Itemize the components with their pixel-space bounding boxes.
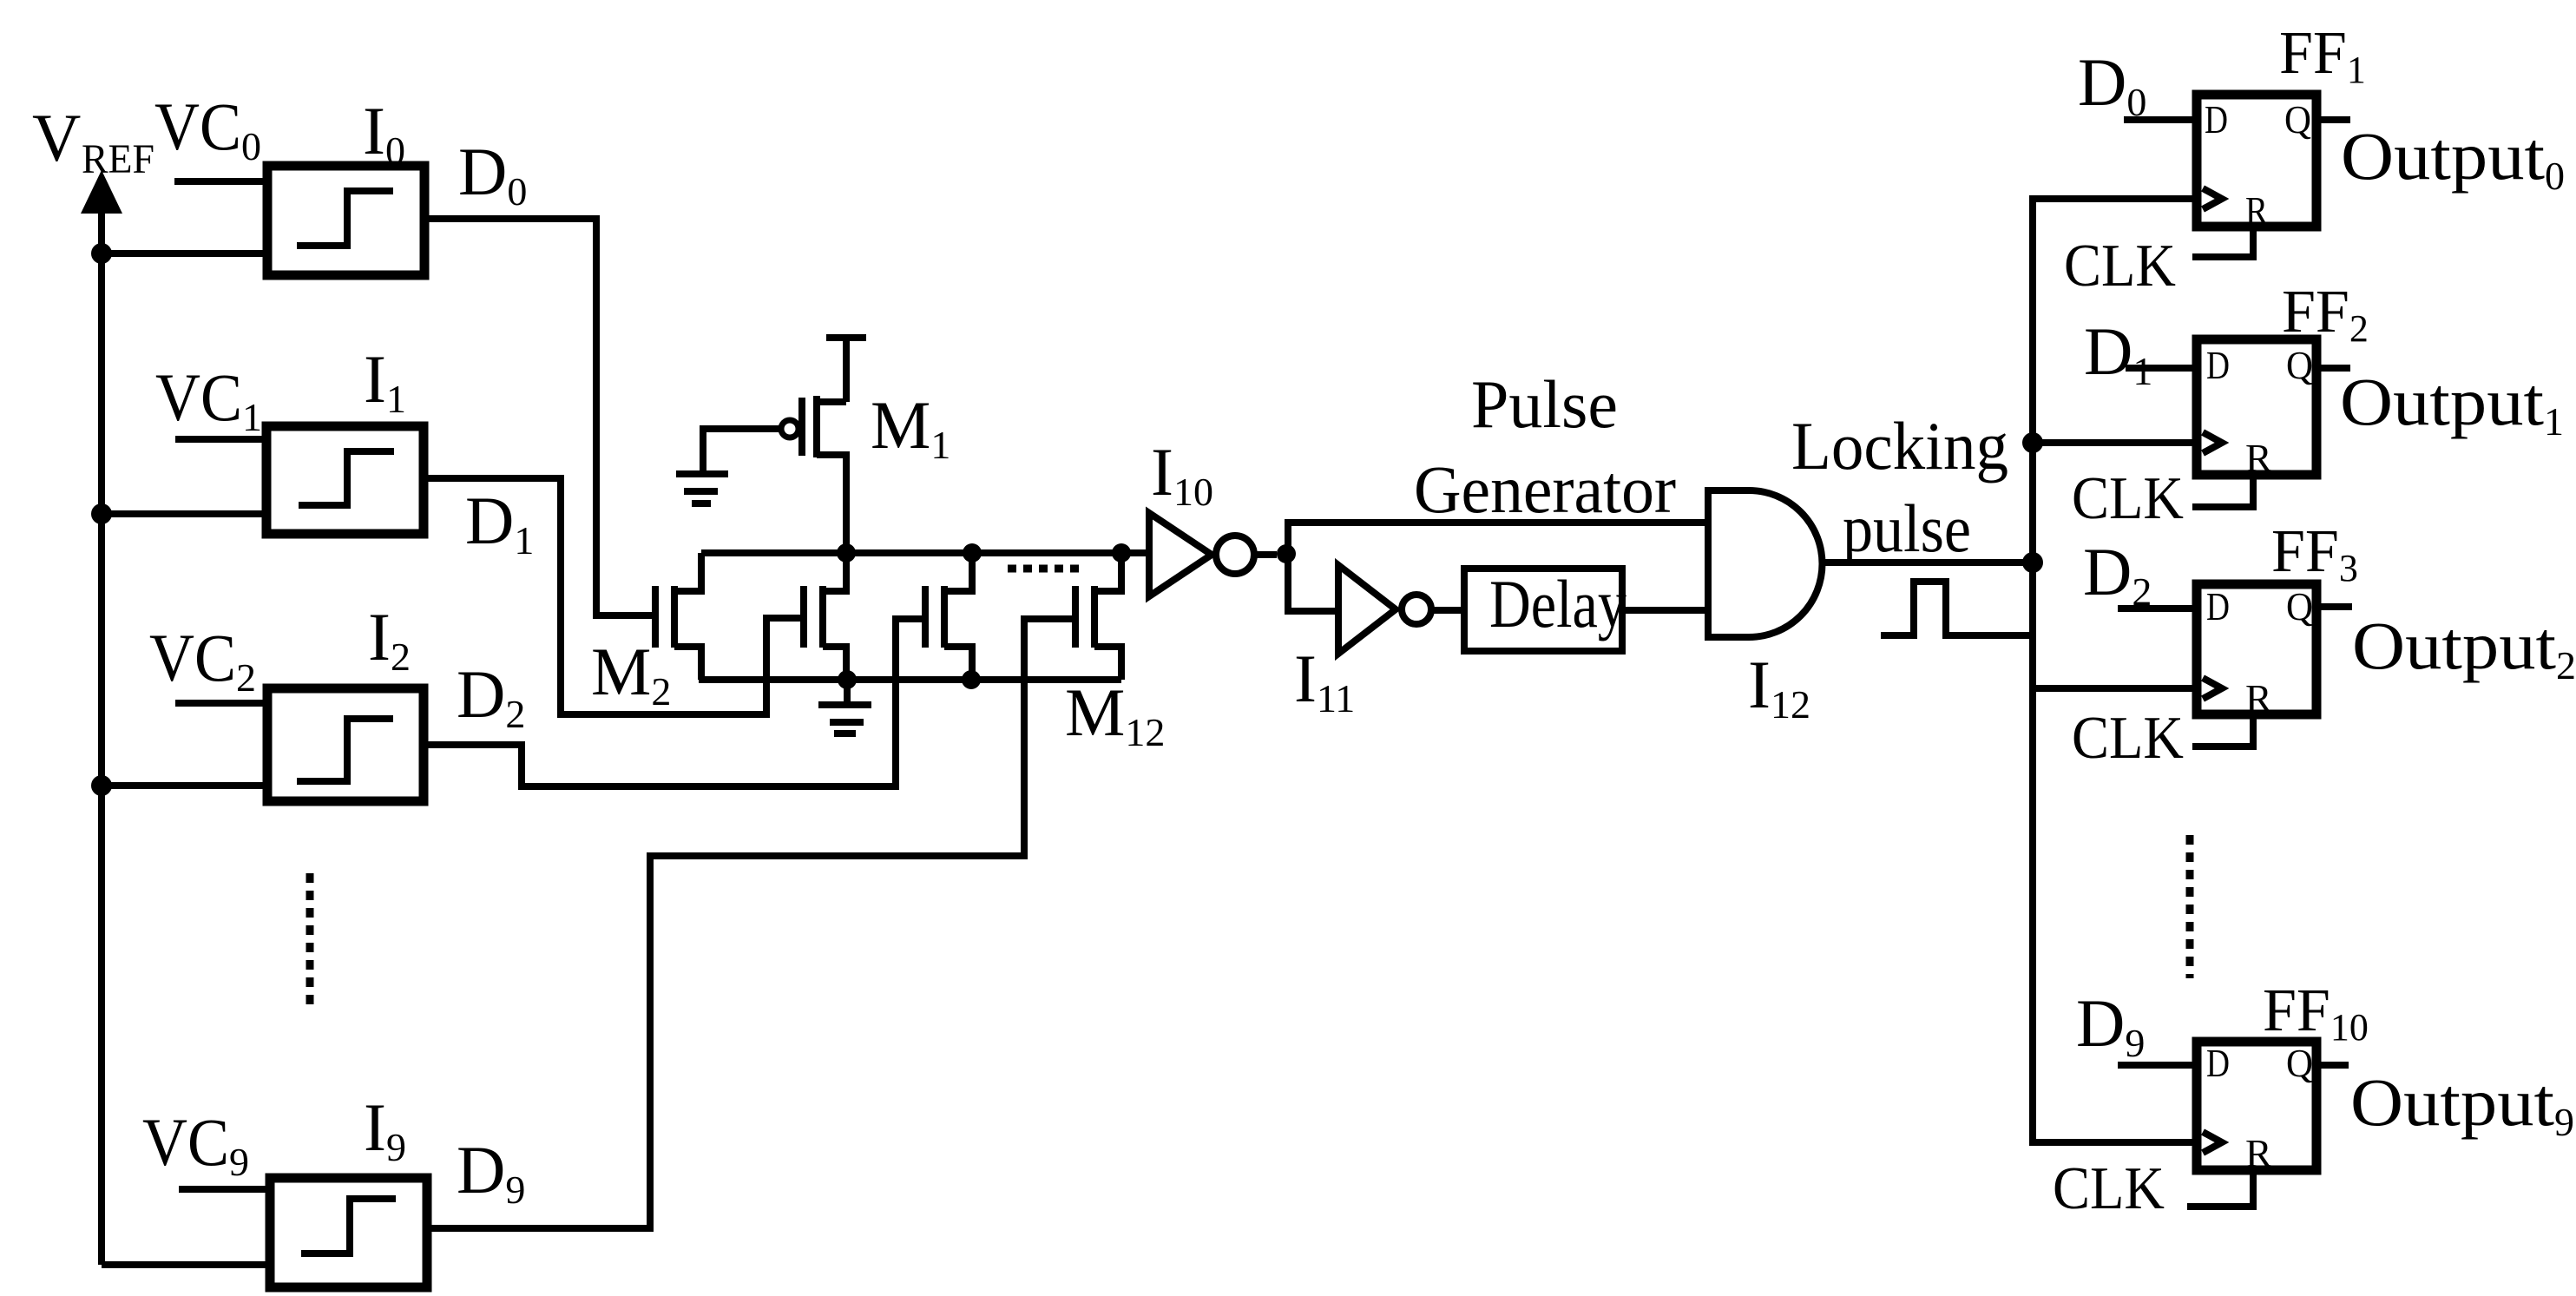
wire source rail (699, 676, 1121, 683)
svg-text:VC9: VC9 (142, 1104, 249, 1184)
wire VREF to I9 lower input (102, 1261, 266, 1268)
wire M1 gate to ground (703, 429, 781, 470)
inverter I10 (1149, 513, 1277, 596)
svg-text:Q: Q (2286, 584, 2313, 628)
wire FF2 R lead (2192, 475, 2253, 507)
node VREF arrow (81, 170, 122, 1265)
label I11 (1294, 641, 1355, 720)
svg-text:pulse: pulse (1843, 490, 1971, 566)
wire D0 I0 to M2 gate (424, 219, 652, 615)
label Output0 (2341, 118, 2565, 198)
wire to AND top input (1288, 523, 1708, 554)
svg-text:I2: I2 (368, 599, 411, 679)
label I10 (1151, 434, 1213, 514)
wire to I11 input (1288, 554, 1338, 611)
comparator I0 (267, 166, 424, 275)
svg-text:FF10: FF10 (2263, 977, 2369, 1049)
wire FF2 D input (2126, 365, 2197, 372)
label CLK FF3 (2072, 705, 2184, 772)
svg-text:Output0: Output0 (2341, 118, 2565, 198)
wire VREF to I1 (102, 510, 266, 517)
svg-text:D: D (2206, 1041, 2230, 1085)
wire FF1 Q output (2316, 116, 2350, 123)
svg-text:D0: D0 (2078, 44, 2146, 124)
label I2 (368, 599, 411, 679)
svg-text:D9: D9 (457, 1132, 525, 1212)
pin labels FF10 (2206, 1041, 2313, 1175)
transistor M12 (1075, 553, 1121, 680)
wire drain rail (701, 549, 1149, 556)
label D1 (465, 483, 534, 562)
flip-flop FF3 (2197, 584, 2316, 714)
label M2 (591, 634, 671, 714)
node drain rail junction M1 (837, 543, 856, 562)
svg-text:R: R (2245, 188, 2268, 233)
label I1 (364, 341, 406, 421)
svg-text:I11: I11 (1294, 641, 1355, 720)
svg-text:I9: I9 (364, 1089, 406, 1169)
svg-text:D: D (2205, 97, 2228, 141)
label D2 (457, 656, 525, 736)
wire bus to FF3 clock (2033, 685, 2197, 692)
ground at M1 gate (676, 474, 728, 503)
svg-text:Delay: Delay (1489, 566, 1626, 641)
horizontal ellipsis between M4 and M12 (1008, 565, 1079, 573)
node source rail junction gnd (838, 670, 857, 689)
node VREF tap I2 (91, 775, 112, 796)
node drain rail junction M12 (1112, 543, 1131, 562)
comparator I9 (270, 1178, 427, 1287)
svg-text:Q: Q (2286, 1041, 2313, 1085)
svg-text:I1: I1 (364, 341, 406, 421)
wire FF1 D input (2124, 116, 2197, 123)
wire FF3 D input (2118, 605, 2197, 612)
wire bus to FF1 clock (0, 0, 3, 3)
label D1 FF2 (2084, 313, 2152, 393)
label FF3 (2271, 518, 2358, 589)
node bus FF2 tap (2022, 432, 2043, 453)
label Output1 (2340, 364, 2564, 444)
wire FF10 D input (2118, 1062, 2197, 1069)
label VC1 (155, 359, 262, 439)
gate AND I12 (1708, 490, 1823, 637)
wire FF10 Q output (2316, 1062, 2349, 1069)
transistor M4 (925, 553, 972, 680)
transistor M1 (PMOS) (781, 396, 846, 553)
node locking pulse junction (2022, 552, 2043, 573)
symbol pulse waveform (1881, 582, 2029, 635)
svg-text:D: D (2206, 584, 2230, 628)
svg-text:Locking: Locking (1791, 408, 2008, 484)
svg-text:CLK: CLK (2072, 465, 2184, 532)
wire FF10 R lead (2187, 1170, 2253, 1207)
ground at source rail (818, 680, 871, 734)
wire VC0 input (174, 178, 267, 185)
label Locking (1791, 408, 2008, 484)
svg-text:R: R (2245, 436, 2272, 480)
svg-text:Generator: Generator (1414, 451, 1676, 527)
flip-flop FF1 (2197, 95, 2316, 227)
svg-text:R: R (2245, 676, 2272, 720)
label VC0 (154, 89, 261, 168)
wire FF3 Q output (2316, 603, 2352, 610)
comparator I1 (266, 426, 424, 534)
svg-text:VC2: VC2 (149, 620, 256, 700)
label M12 (1065, 674, 1165, 754)
wire VC9 input (179, 1186, 270, 1193)
svg-text:R: R (2245, 1131, 2272, 1175)
wire D1 I1 to T2 gate (424, 478, 800, 714)
comparator I2 (267, 688, 424, 801)
svg-text:M2: M2 (591, 634, 671, 714)
label VREF (32, 100, 154, 182)
label D0 (458, 134, 527, 214)
svg-text:Q: Q (2286, 343, 2313, 387)
svg-text:Output1: Output1 (2340, 364, 2564, 444)
svg-text:VC1: VC1 (155, 359, 262, 439)
svg-text:M12: M12 (1065, 674, 1165, 754)
svg-text:FF2: FF2 (2282, 279, 2369, 350)
block Delay (1464, 569, 1622, 651)
label Generator (1414, 451, 1676, 527)
wire FF3 R lead (2192, 714, 2253, 747)
wire D2 I2 to T3 gate (424, 619, 922, 786)
label Pulse (1471, 366, 1618, 442)
label Delay (1489, 566, 1626, 641)
label CLK FF1 (2064, 233, 2176, 299)
wire VC2 input (175, 700, 267, 707)
svg-text:Q: Q (2284, 97, 2311, 141)
power VDD bar M1 (826, 338, 866, 402)
pin labels FF2 (2206, 343, 2313, 480)
svg-text:I0: I0 (363, 93, 405, 173)
wire CLK bus vertical (2033, 199, 2197, 1142)
svg-text:M1: M1 (871, 387, 950, 467)
label D9 (457, 1132, 525, 1212)
label CLK FF2 (2072, 465, 2184, 532)
svg-text:D1: D1 (465, 483, 534, 562)
pin labels FF3 (2206, 584, 2313, 720)
svg-text:FF1: FF1 (2279, 20, 2366, 91)
flip-flop FF10 (2197, 1042, 2316, 1170)
transistor M2 (655, 553, 701, 680)
label CLK FF10 (2053, 1155, 2165, 1222)
svg-text:D1: D1 (2084, 313, 2152, 393)
node inverter output junction (1277, 544, 1296, 563)
flip-flop FF2 (2197, 339, 2316, 475)
wire VREF to I2 (102, 782, 267, 789)
node VREF tap I0 (91, 243, 112, 264)
label FF1 (2279, 20, 2366, 91)
label M1 (871, 387, 950, 467)
wire Delay to AND bottom input (1622, 607, 1708, 614)
svg-text:VC0: VC0 (154, 89, 261, 168)
svg-text:CLK: CLK (2072, 705, 2184, 772)
node drain rail junction M4 (963, 543, 982, 562)
label FF2 (2282, 279, 2369, 350)
right vertical ellipsis (2186, 835, 2194, 978)
label pulse (1843, 490, 1971, 566)
transistor M3 (804, 553, 846, 680)
svg-text:D2: D2 (2083, 534, 2152, 614)
inverter I11 (1338, 565, 1464, 654)
node source rail junction M4 (962, 670, 981, 689)
label Output2 (2352, 608, 2576, 687)
wire FF2 Q output (2316, 365, 2350, 372)
svg-text:Output9: Output9 (2350, 1064, 2574, 1144)
svg-text:D0: D0 (458, 134, 527, 214)
label VC9 (142, 1104, 249, 1184)
label VC2 (149, 620, 256, 700)
wire bus to FF10 clock (0, 0, 3, 3)
svg-text:Output2: Output2 (2352, 608, 2576, 687)
wire bus to FF2 clock (2033, 439, 2197, 446)
wire VC1 input (175, 436, 266, 443)
svg-text:Pulse: Pulse (1471, 366, 1618, 442)
svg-text:I10: I10 (1151, 434, 1213, 514)
label D9 FF10 (2076, 985, 2145, 1065)
svg-text:CLK: CLK (2064, 233, 2176, 299)
label Output9 (2350, 1064, 2574, 1144)
svg-text:REF: REF (82, 136, 154, 182)
pin labels FF1 (2205, 97, 2311, 233)
wire D9 I9 to M12 gate (427, 619, 1075, 1228)
label D0 FF1 (2078, 44, 2146, 124)
label I9 (364, 1089, 406, 1169)
svg-text:D9: D9 (2076, 985, 2145, 1065)
left vertical ellipsis (306, 873, 314, 1011)
label I0 (363, 93, 405, 173)
svg-text:I12: I12 (1748, 647, 1810, 727)
svg-text:D2: D2 (457, 656, 525, 736)
wire AND output to bus (1823, 559, 2033, 566)
svg-text:FF3: FF3 (2271, 518, 2358, 589)
wire FF1 R lead (2192, 227, 2253, 257)
svg-text:D: D (2206, 343, 2230, 387)
wire VREF to I0 (102, 250, 267, 257)
label D2 FF3 (2083, 534, 2152, 614)
svg-text:CLK: CLK (2053, 1155, 2165, 1222)
label FF10 (2263, 977, 2369, 1049)
node VREF tap I1 (91, 503, 112, 524)
svg-text:V: V (32, 100, 81, 175)
label I12 (1748, 647, 1810, 727)
